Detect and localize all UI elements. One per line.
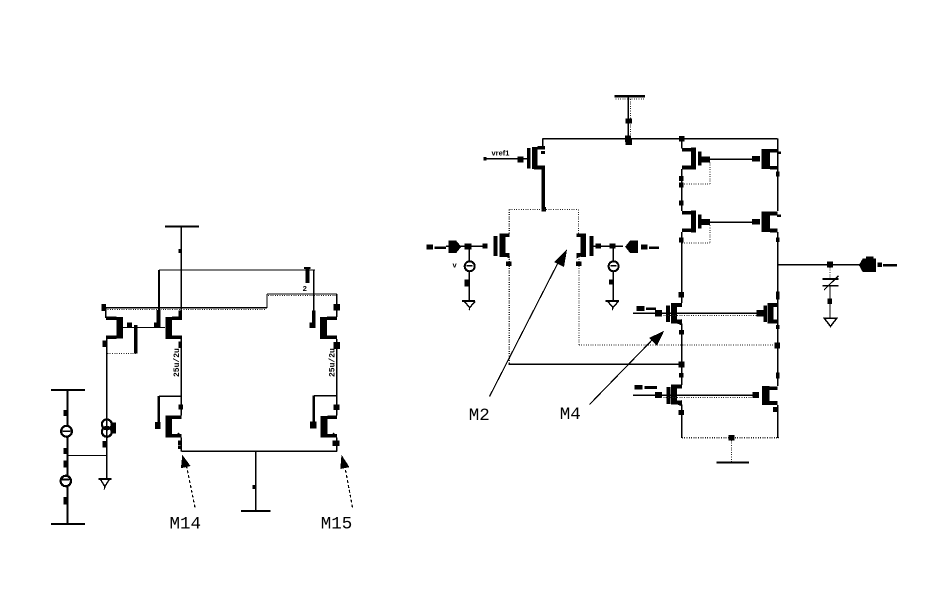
label vcn (row3 gate) [637,306,657,311]
ground symbol (left input) [462,301,475,310]
wire: row3 gate feed [633,310,756,317]
arrow callout to M4 [590,331,665,405]
wire: PL1 drain down-left [103,339,107,479]
wire: left column row2-row3 [679,232,685,303]
bias chain rail bottom bar [51,486,85,524]
label M4 [560,405,581,425]
nmos M8 (stack row2 right) [752,212,781,233]
wire: row2 gate bus [710,221,753,223]
wire: bias chain to PL1 drain branch [68,455,107,457]
wire: row4 gate bus (dotted) [661,396,752,398]
arrow callout to M14 [181,455,195,508]
nmos M11 (stack row4 right) [752,386,778,412]
wire: row1 gate bus [710,158,753,160]
svg-text:2: 2 [303,286,308,294]
pmos PL2 (second from left) [154,270,182,348]
wire: M2 drain (dotted) down [576,257,581,345]
wire: PL2 drain column x=181.3 [180,339,182,416]
label vbn (row4 gate) [635,385,657,390]
wire: M7 diode connection (dotted) [682,225,710,243]
svg-text:25u/2u: 25u/2u [173,348,182,377]
svg-text:M14: M14 [170,515,202,535]
wire: rail jog up to pmos PL3 source [267,294,337,308]
wire: M5 diode connection (dotted) [682,162,710,184]
ground symbol (bias branch) [98,479,111,490]
nmos M5 (stack row1 left, diode) [682,147,710,169]
label vin+ (left input) [427,245,446,250]
wire: source rail y=307.5 (left circuit) [102,304,268,311]
label vin- (right input) [641,245,659,250]
power rail symbol VDD (left circuit) [165,227,199,317]
wire: right column row1-row2 [776,139,780,212]
svg-text:25u/2u: 25u/2u [329,348,338,377]
nmos M9 (stack row3 right) [756,303,777,324]
wire: gate bus PL1-PL2 y=327.5 [123,327,165,329]
svg-text:vref1: vref1 [492,149,510,158]
pmos PL3 (right of left circuit) [310,270,337,339]
wire: left column to bottom rail [681,404,683,437]
pmos PL1 (diode-connected, far left) [106,308,138,354]
label out [878,263,897,267]
wire: vref gate feed [484,156,527,162]
wire: M2 drain to right column (dotted) [579,342,780,348]
pmos M1 (diff pair left) [482,233,509,258]
label: device size (rotated) left-mid [173,348,182,377]
nmos M15 (diode-connected) [310,396,340,447]
bias tap symbol on PL1 drain line [102,419,116,447]
label: device size (rotated) right-mid [329,348,338,377]
label M15 [321,515,353,535]
ground symbol (right input) [606,301,619,310]
arrow callout to M2 [490,250,568,397]
input port symbol (left) [448,241,461,253]
vdc source VS1 (left) [453,249,475,300]
wire: left column row1-row2 [679,169,683,211]
pin flag symbol on node y=270 [303,268,311,294]
wire: right column to bottom rail [777,405,779,438]
wire: M1 drain to cascode node (solid) [509,363,682,365]
voltage source V2 [61,437,71,486]
wire: PL3 drain column x=336.8 [334,339,340,416]
wire: left input to M1 gate [446,244,482,250]
vdc source VS2 (right) [609,249,619,301]
nmos M7 (stack row2 left, diode) [682,210,710,232]
wire: M15 source to bottom rail [336,438,338,452]
ground symbol (output cap) [824,318,836,326]
junction tick on VDD stem [178,249,182,253]
wire: M1 drain (dotted) down [506,257,511,364]
svg-text:M2: M2 [469,406,490,426]
nmos M4 (stack row3 left) [666,303,682,326]
wire: right column row3-row4 [776,303,780,386]
wire: bottom rail of left circuit [181,450,336,452]
arrow callout to M15 [340,455,352,508]
pmos M2 (diff pair right) [576,233,600,258]
nmos M14 (diode-connected) [155,396,183,449]
output port symbol [859,257,876,273]
voltage source V1 [61,390,72,437]
wire: tail node (dotted) [509,210,578,234]
wire: PL3 source feed from rail jog [334,294,340,317]
nmos M10 (stack row4 left) [666,384,684,415]
wire: left column upper [681,139,683,149]
wire: output node [778,262,864,268]
label M2 [469,406,490,426]
label vref1 [492,149,510,158]
capacitor CL [822,267,838,318]
wire: left column row3-row4 [679,324,685,385]
bias chain rail top bar [51,389,85,391]
svg-text:M15: M15 [321,515,353,535]
wire: PL1 gate-drain diode connection (dotted) [107,353,136,355]
power rail symbol VDD (right circuit) [615,96,646,145]
wire: right input to M2 gate [593,243,623,248]
ground symbol (left circuit tail) [241,451,271,511]
nmos M6 (stack row1 right) [752,149,781,170]
wire: gate node y=270 to PL3 [159,269,315,271]
pmos MT tail current source [527,139,545,210]
ground symbol (right circuit) [717,440,749,462]
label M14 [170,515,202,535]
wire: row3 gate bus (dotted) [661,315,756,317]
svg-text:M4: M4 [560,405,581,425]
wire: bottom rail (dotted) [682,435,779,440]
junction: tail node [541,207,546,211]
wire: right column row2-row3 [776,232,780,303]
input port symbol (right) [625,241,638,253]
wire: M14 source to bottom rail [180,438,182,452]
wire: row4 gate feed [633,392,752,398]
wire: top rail y=138.7 [543,136,778,142]
